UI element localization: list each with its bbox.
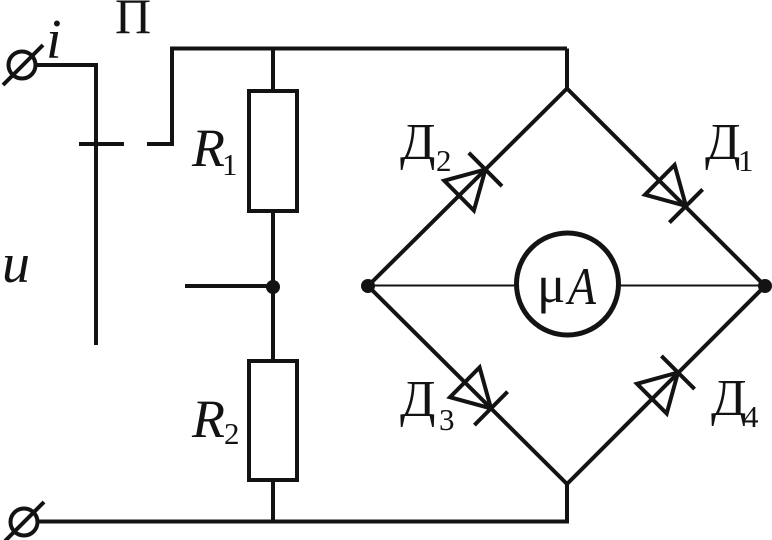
svg-text:4: 4 <box>743 399 759 434</box>
wire bridge bottom drop <box>38 484 567 522</box>
terminal input top-left <box>9 52 36 79</box>
terminal output bottom-left <box>11 509 38 536</box>
wire bridge edge top-right <box>567 89 765 287</box>
wire tap stub <box>185 284 273 288</box>
svg-text:Д: Д <box>711 370 746 427</box>
wire terminal to corner <box>36 65 96 345</box>
wire bridge edge left-top <box>368 89 567 287</box>
wire bridge edge bottom-right <box>567 286 765 484</box>
node bridge left dot <box>361 279 375 293</box>
wire top rail drop to bridge <box>565 49 569 91</box>
svg-text:Д: Д <box>400 114 435 171</box>
diode D4 cathode bar <box>661 356 694 389</box>
svg-text:П: П <box>115 0 151 44</box>
resistor R2 <box>249 361 297 480</box>
diode D1 triangle <box>645 165 686 206</box>
svg-text:1: 1 <box>738 143 754 178</box>
terminal output slash <box>5 502 44 540</box>
svg-text:Д: Д <box>400 371 435 428</box>
svg-text:Д: Д <box>705 114 740 171</box>
svg-text:μ: μ <box>537 256 565 314</box>
wire top rail to R1 <box>271 49 275 94</box>
diode D4 triangle <box>637 373 678 414</box>
svg-text:2: 2 <box>436 143 452 178</box>
switch moving contact L <box>147 47 172 145</box>
svg-text:A: A <box>565 258 596 316</box>
wire R2 to bottom rail <box>271 480 275 522</box>
svg-text:1: 1 <box>222 147 238 182</box>
node junction dot <box>266 280 280 294</box>
wire meter left <box>368 285 516 287</box>
diode D3 triangle <box>450 367 491 408</box>
wire R1 to node <box>271 211 275 363</box>
switch fixed contact bar <box>79 142 124 146</box>
svg-text:u: u <box>2 233 30 295</box>
svg-text:i: i <box>46 9 62 71</box>
meter microammeter circle <box>517 233 619 335</box>
svg-text:3: 3 <box>439 402 455 437</box>
diode D3 cathode bar <box>474 392 507 425</box>
diode D2 triangle <box>444 170 485 211</box>
diode D1 cathode bar <box>669 189 702 222</box>
terminal input slash <box>3 45 43 85</box>
diode D2 cathode bar <box>469 153 502 186</box>
wire meter right <box>619 285 765 287</box>
wire top rail <box>170 47 567 51</box>
svg-text:R: R <box>191 389 225 449</box>
resistor R1 <box>249 91 297 211</box>
node bridge right dot <box>758 279 772 293</box>
svg-text:R: R <box>191 118 225 178</box>
svg-text:2: 2 <box>224 416 240 451</box>
wire bridge edge left-bottom <box>368 286 567 484</box>
